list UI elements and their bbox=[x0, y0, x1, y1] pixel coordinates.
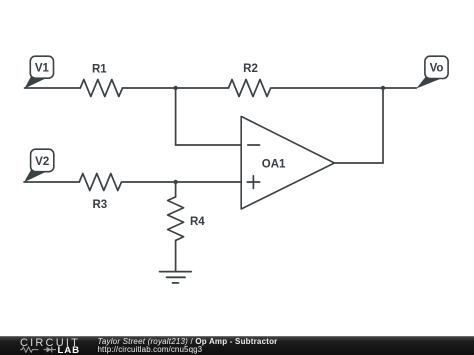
resistor R2 bbox=[229, 80, 271, 97]
flag Vo bbox=[416, 56, 448, 88]
svg-text:http://circuitlab.com/cnu5qg3: http://circuitlab.com/cnu5qg3 bbox=[98, 345, 203, 354]
logo squiggle: resistor + diode bbox=[20, 347, 56, 352]
resistor R1 bbox=[80, 80, 122, 97]
wire R3 to node C and non-inverting input bbox=[123, 181, 242, 183]
flag V1 bbox=[25, 56, 54, 88]
node B junction dot bbox=[381, 86, 385, 90]
svg-text:Vo: Vo bbox=[430, 63, 444, 75]
resistor R4 bbox=[168, 197, 184, 241]
wire V1 to R1 bbox=[25, 87, 81, 89]
wire V2 to R3 bbox=[24, 181, 79, 183]
svg-text:LAB: LAB bbox=[58, 345, 80, 355]
wire R4 to ground bbox=[175, 241, 177, 272]
wire node B to Vo bbox=[383, 87, 416, 89]
svg-text:V2: V2 bbox=[35, 156, 49, 168]
resistor R3 bbox=[79, 174, 121, 191]
wire feedback vertical from node A bbox=[175, 88, 177, 145]
wire R2 to node B bbox=[272, 87, 383, 89]
ground bbox=[160, 272, 192, 283]
svg-text:R2: R2 bbox=[243, 63, 258, 75]
svg-text:R4: R4 bbox=[190, 216, 205, 228]
svg-text:OA1: OA1 bbox=[262, 159, 286, 171]
flag V2 bbox=[24, 149, 54, 182]
svg-text:R3: R3 bbox=[92, 199, 107, 211]
wire node B down to output bbox=[382, 88, 384, 163]
node C junction dot bbox=[173, 180, 177, 184]
op-amp minus pin bbox=[248, 144, 260, 146]
wire R1 to node A bbox=[123, 87, 176, 89]
wire node A to R2 bbox=[176, 87, 229, 89]
svg-text:V1: V1 bbox=[35, 63, 50, 75]
node A junction dot bbox=[173, 86, 177, 90]
op-amp OA1 bbox=[241, 116, 334, 209]
wire node C to R4 bbox=[175, 182, 177, 197]
wire op-amp output bbox=[334, 162, 383, 164]
op-amp plus pin bbox=[247, 176, 259, 189]
wire to inverting input bbox=[176, 144, 242, 146]
svg-text:R1: R1 bbox=[92, 64, 107, 76]
CircuitLab logo wordmark bbox=[20, 337, 80, 355]
